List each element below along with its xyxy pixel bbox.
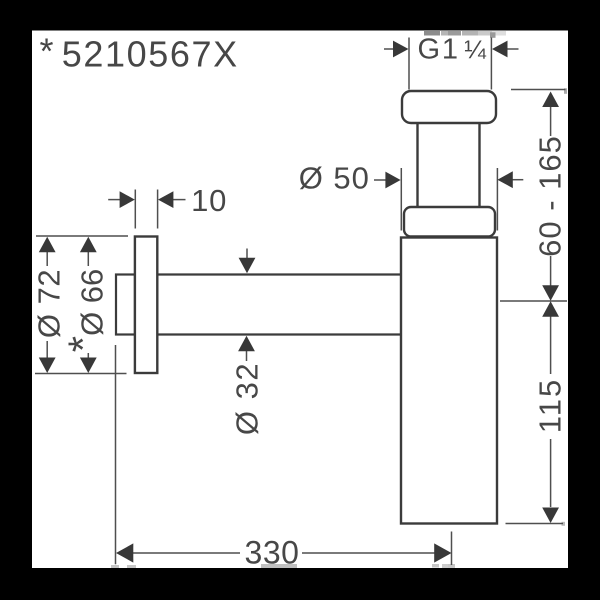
diameter 66 top arrow (up) bbox=[80, 237, 97, 253]
G1 1/4 arrow tails bbox=[384, 48, 394, 50]
diameter 72 / 66 top tick bbox=[36, 235, 128, 237]
bottle body bbox=[401, 238, 497, 524]
330 extension lines bbox=[115, 345, 117, 564]
115 dim line segments bbox=[550, 316, 552, 374]
svg-text:G1¼: G1¼ bbox=[418, 33, 488, 65]
330 right arrow (right-pointing) bbox=[434, 543, 451, 562]
diameter 66 dim line segments bbox=[87, 251, 89, 266]
diameter 72 top arrow (up) bbox=[39, 237, 56, 253]
svg-text:Ø 32: Ø 32 bbox=[230, 362, 265, 435]
diameter 72 / 66 bottom tick bbox=[35, 373, 127, 375]
diameter 50 left arrow (right-pointing) bbox=[385, 172, 400, 189]
10 right arrow (left-pointing) bbox=[158, 191, 173, 208]
diameter 32 arrow tails bbox=[246, 249, 248, 260]
60-165 top arrow (up) bbox=[542, 92, 559, 108]
diameter 50 arrow tails bbox=[374, 179, 386, 181]
diameter 50 right arrow (left-pointing) bbox=[497, 171, 512, 188]
diameter 66 bottom arrow (down) bbox=[80, 358, 97, 374]
pipe end cap behind wall flange bbox=[116, 275, 135, 335]
diameter 32 lower arrow (up) bbox=[238, 336, 255, 352]
vertical pipe walls bbox=[416, 122, 418, 208]
60-165 bottom arrow (down) bbox=[542, 285, 559, 301]
wall flange bbox=[135, 237, 157, 374]
horizontal pipe top edge bbox=[157, 273, 401, 275]
diameter 50 extension lines bbox=[400, 168, 402, 231]
10 extension lines bbox=[134, 190, 136, 229]
330 left arrow (left-pointing) bbox=[116, 543, 133, 562]
60-165 top tick bbox=[511, 89, 566, 91]
330 dim line segments bbox=[132, 552, 240, 554]
top flange (nut) bbox=[402, 91, 496, 123]
horizontal pipe bottom edge bbox=[157, 333, 401, 335]
svg-text:* 5210567X: * 5210567X bbox=[40, 31, 239, 75]
115 bottom tick bbox=[506, 523, 564, 525]
svg-text:115: 115 bbox=[533, 378, 568, 433]
60-165 dim line segments bbox=[550, 106, 552, 136]
10 left arrow (right-pointing) bbox=[120, 191, 135, 208]
diameter 32 upper arrow (down) bbox=[239, 258, 256, 274]
diameter 72 dim line segments bbox=[46, 251, 48, 266]
G1 1/4 extension lines bbox=[408, 38, 410, 90]
svg-text:330: 330 bbox=[245, 535, 300, 571]
cropped-text gray artifacts along top edge bbox=[424, 31, 506, 38]
faint artifacts near ticks and bottom edge bbox=[111, 88, 567, 568]
svg-text:Ø 50: Ø 50 bbox=[299, 161, 370, 196]
G1 1/4 left arrow bbox=[393, 41, 409, 58]
G1 1/4 right arrow bbox=[492, 41, 508, 58]
svg-text:Ø 72: Ø 72 bbox=[32, 269, 67, 338]
115 top arrow (up) bbox=[542, 301, 559, 317]
lower flange (nut) bbox=[404, 207, 495, 237]
svg-text:60 - 165: 60 - 165 bbox=[533, 135, 568, 257]
115 bottom arrow (down) bbox=[542, 508, 559, 524]
diameter 72 bottom arrow (down) bbox=[39, 358, 56, 374]
10 arrow tails bbox=[108, 199, 120, 201]
svg-text:10: 10 bbox=[191, 183, 227, 218]
60-165 / 115 mid tick bbox=[500, 300, 567, 302]
